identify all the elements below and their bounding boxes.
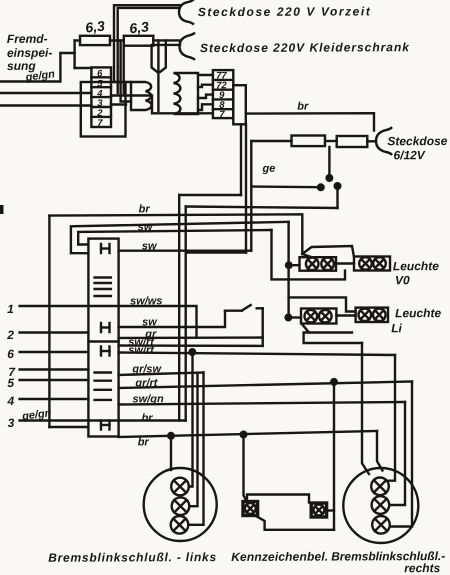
transformer secondary winding — [174, 73, 199, 114]
lamp Li 1 — [305, 310, 318, 323]
wire mains feed N — [0, 92, 91, 94]
lamp VO 2 — [321, 258, 334, 271]
wire pin3 ge/gn — [20, 419, 186, 421]
switch contact common dot — [327, 175, 333, 181]
svg-text:Bremsblinkschlußl. - links: Bremsblinkschlußl. - links — [48, 550, 216, 565]
switch contact out dot — [335, 183, 341, 189]
terminal strip body — [88, 239, 118, 437]
lamp housing Leuchte Li box2 — [356, 308, 388, 322]
wire V2 long drop — [184, 207, 186, 421]
wire Kennzeichen bottom link — [256, 516, 334, 530]
wire Li bottom run — [304, 333, 362, 344]
wire br main left — [49, 214, 302, 254]
svg-text:sw/rt: sw/rt — [128, 344, 155, 356]
wire pin4 — [20, 398, 89, 400]
wire drop to right lamp3 — [390, 382, 412, 527]
wire drop br into right circle — [377, 431, 382, 471]
wire ge line — [251, 185, 318, 188]
terminal link symbol T3 — [101, 347, 110, 356]
wire Kennzeichen riser — [333, 382, 335, 530]
wire switch out drop — [336, 186, 338, 208]
wire mains feed L (Fremdeinspeisung) — [0, 53, 75, 82]
wire pin2 — [20, 331, 89, 333]
svg-text:br: br — [297, 101, 309, 113]
svg-text:6/12V: 6/12V — [393, 148, 425, 162]
lamp rechts 3 — [372, 516, 390, 534]
svg-text:sw: sw — [142, 240, 158, 252]
wire fuse chain 6/12V left — [251, 140, 291, 142]
svg-text:ge: ge — [261, 163, 275, 175]
wire Li bottom diagonal — [302, 324, 310, 333]
lamp links 3 — [171, 516, 189, 534]
wire ge-box riser — [250, 141, 252, 251]
svg-text:2: 2 — [6, 328, 14, 342]
lamp cluster circle rechts — [343, 468, 418, 543]
arrow funnel right side — [160, 40, 166, 71]
wire drop to left lamp1 — [189, 352, 193, 487]
wire pin6 — [20, 351, 89, 353]
wire pin7 drop V241 — [240, 124, 242, 195]
wire sw/rt line no.1 — [119, 344, 263, 347]
wire between 6/12V fuses — [325, 140, 337, 142]
svg-text:rechts: rechts — [404, 561, 440, 575]
wire sw/rt line no.2 — [119, 353, 395, 356]
wire drop through block to N rail — [116, 41, 118, 94]
ink blob left margin — [0, 205, 4, 214]
lamp Kennzeichen left — [245, 503, 256, 514]
wire into Li box1 — [288, 316, 301, 318]
svg-text:6,3: 6,3 — [128, 18, 149, 36]
fuse F2 6,3A — [124, 36, 154, 46]
svg-text:1: 1 — [7, 302, 14, 316]
wire F2 to socket Kleiderschrank lower — [153, 44, 180, 46]
wire sw no.3 strip to ge-box riser — [119, 249, 252, 251]
lamp Li 2 — [319, 310, 332, 323]
resistor/fuse 6/12V no.1 — [292, 136, 326, 147]
wire Kennzeichen right to riser — [327, 509, 334, 511]
svg-text:7: 7 — [97, 118, 103, 129]
lamp housing Leuchte VO box2 — [354, 257, 390, 271]
lamp Li 4 — [373, 309, 386, 322]
wire gr/sw line — [119, 373, 204, 376]
switch contact ge dot — [318, 185, 324, 191]
wire VO lid — [302, 246, 354, 257]
svg-text:5: 5 — [7, 376, 14, 390]
wire secondary tap3 to pin 9 — [198, 95, 213, 98]
svg-text:Li: Li — [391, 321, 402, 335]
wire br diag into VO box — [302, 254, 310, 257]
wire drop to transformer primary bottom — [121, 41, 131, 102]
svg-text:7: 7 — [219, 109, 225, 120]
lamp housing Leuchte VO box1 — [300, 257, 337, 271]
wire stub block right at PE — [111, 103, 126, 105]
arrow funnel left side — [152, 45, 157, 72]
lamp links 1 — [171, 478, 189, 496]
wire sw no.1 (strip to lamps feed) — [71, 222, 289, 253]
connector block left outer box — [81, 82, 126, 137]
wire secondary tap4 to pin 8 — [198, 104, 213, 110]
wire Li box1 to box2 — [336, 314, 355, 316]
resistor/fuse 6/12V no.2 — [337, 136, 368, 147]
wire switch loop right — [262, 308, 264, 346]
svg-text:br: br — [142, 412, 154, 424]
junction dot br to Kennzeichen — [241, 432, 247, 438]
junction dot Leuchte Li — [286, 315, 292, 321]
connector block right cells 77 72 9 8 7 — [213, 70, 233, 118]
svg-text:Steckdose 220V Kleiderschrank: Steckdose 220V Kleiderschrank — [200, 40, 410, 55]
wire secondary tap1 to pin 77 — [198, 74, 213, 76]
wire Li drop to right lamp — [362, 343, 369, 474]
transformer primary winding — [131, 82, 151, 110]
lamp Kennzeichen right housing — [311, 503, 326, 517]
wire Li top feed — [289, 297, 356, 311]
wire Leuchte VO feed dot — [286, 262, 292, 268]
lamp Li 3 — [359, 309, 372, 322]
svg-text:Steckdose 220 V Vorzeit: Steckdose 220 V Vorzeit — [198, 4, 371, 19]
lamp VO 1 — [306, 258, 319, 271]
svg-text:Leuchte: Leuchte — [393, 259, 439, 273]
socket bracket Steckdose 220V Vorzeit — [179, 0, 193, 24]
switch blade relay contact — [225, 305, 263, 311]
junction dot sw/rt2 — [190, 349, 196, 355]
svg-text:Fremd-: Fremd- — [7, 32, 48, 46]
wire into VO box1 — [289, 264, 300, 266]
lamp Kennzeichen right — [314, 505, 325, 516]
socket bracket Steckdose 220V Kleiderschrank — [180, 33, 195, 59]
wire drop short to N rail — [122, 41, 124, 94]
wire block to pin 7 under windings — [111, 96, 213, 114]
wire riser to socket Vorzeit upper — [114, 5, 180, 40]
wire F2 to socket Kleiderschrank upper — [153, 39, 180, 41]
terminal link symbol T2 — [101, 323, 110, 332]
wire VO box1 to box2 — [336, 262, 354, 264]
lamp rechts 2 — [372, 496, 390, 514]
svg-text:gr/sw: gr/sw — [131, 363, 162, 375]
wire gr line — [119, 336, 263, 339]
transformer core line — [157, 40, 159, 111]
wire VA connector drop — [245, 124, 247, 252]
wire drop to right lamp1 — [389, 355, 395, 481]
terminal bars group lower — [95, 373, 111, 400]
wire drop to transformer primary top — [114, 41, 131, 83]
wire drop to right lamp2 — [389, 402, 405, 505]
wire br to Steckdose 6/12V — [246, 113, 374, 130]
svg-text:gr/rt: gr/rt — [134, 377, 158, 389]
svg-text:Leuchte: Leuchte — [395, 306, 441, 320]
svg-text:6: 6 — [7, 347, 14, 361]
connector block right outer box — [233, 85, 246, 124]
wire V1 long drop — [178, 195, 180, 421]
junction dot gr/rt — [331, 379, 337, 385]
wire mains feed PE ge/gn — [0, 104, 91, 106]
wire riser to socket Vorzeit lower — [118, 8, 180, 41]
wire V4 drop — [272, 230, 289, 279]
terminal bars group upper — [95, 278, 111, 297]
wire pin7 — [20, 368, 89, 370]
svg-text:br: br — [139, 203, 151, 215]
wire Leuchte vertical feed — [287, 265, 289, 317]
lamp VO 4 — [373, 257, 386, 270]
lamp housing Leuchte Li box1 — [301, 309, 336, 324]
wire H1 jog — [179, 194, 241, 196]
wire sw no.2 (strip to V4) — [78, 230, 271, 245]
wire drop to left circle — [170, 436, 172, 470]
wire drop to left lamp2 — [189, 374, 197, 506]
wire fuse F1 left lead — [75, 41, 92, 69]
svg-text:Steckdose: Steckdose — [387, 134, 447, 148]
junction dot br to left lamp — [168, 433, 174, 439]
svg-text:6,3: 6,3 — [84, 18, 105, 36]
wire sw no.1 drop to Leuchte dot — [287, 222, 289, 265]
wire VA bottom jog — [186, 251, 246, 253]
wire 6/12V fuse to bracket — [367, 140, 376, 142]
lamp rechts 1 — [371, 478, 389, 496]
lamp cluster circle links — [144, 468, 217, 541]
svg-text:Kennzeichenbel.: Kennzeichenbel. — [231, 550, 328, 564]
wire pin1 sw/ws — [20, 306, 197, 338]
connector block left cells — [91, 67, 111, 127]
wire br left riser — [48, 216, 50, 427]
svg-text:sw: sw — [142, 316, 158, 328]
wire fuse F1 to F2 — [110, 39, 124, 41]
wire drop to left lamp3 — [188, 373, 203, 525]
svg-text:3: 3 — [8, 416, 15, 430]
wire br strip bottom left — [49, 426, 88, 428]
svg-text:sw/ws: sw/ws — [130, 295, 162, 307]
svg-text:sw/gn: sw/gn — [132, 393, 164, 405]
wire pin5 — [20, 379, 89, 381]
wire br bottom long — [119, 431, 377, 437]
svg-text:V0: V0 — [395, 273, 410, 287]
wire switch out to V2 — [186, 207, 338, 209]
wire junction down to switch common — [328, 147, 330, 176]
wire drop to Kennzeichen left — [244, 435, 247, 502]
svg-text:br: br — [138, 436, 150, 448]
lamp links 2 — [172, 497, 190, 515]
wire sw to switch — [119, 311, 225, 327]
lamp Kennzeichen left housing — [243, 502, 258, 516]
wire secondary tap2 to pin 72 — [198, 85, 213, 87]
svg-text:einspei-: einspei- — [7, 46, 52, 60]
wire gr/rt line — [119, 382, 412, 389]
fuse F1 6,3A — [80, 36, 110, 45]
socket bracket Steckdose 6/12V — [376, 128, 391, 154]
wire sw/gn line — [119, 402, 405, 405]
terminal link symbol T4 — [101, 421, 110, 430]
svg-text:4: 4 — [6, 394, 14, 408]
terminal link symbol T1 — [101, 244, 110, 253]
wire Kennzeichen top link — [247, 495, 309, 503]
svg-text:sw: sw — [138, 221, 154, 233]
wire VO box1 bottom loop — [289, 271, 345, 280]
lamp VO 3 — [359, 257, 372, 270]
